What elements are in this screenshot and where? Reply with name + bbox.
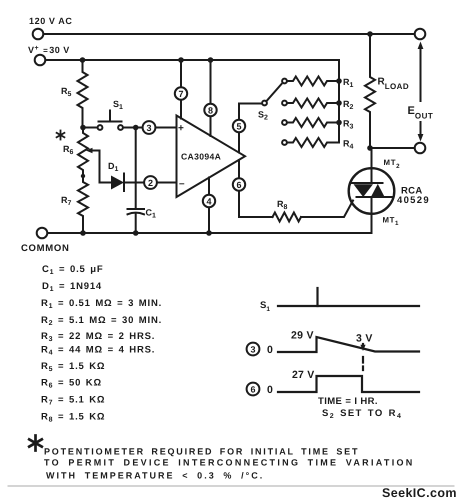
resistor R3 — [282, 118, 353, 131]
resistor R8 — [273, 199, 302, 222]
watermark rule — [8, 485, 454, 487]
pin 5 — [233, 104, 262, 153]
triac RCA 40529 — [349, 148, 395, 233]
pin 4 — [203, 178, 215, 234]
svg-text:S1: S1 — [113, 99, 123, 111]
svg-text:6: 6 — [236, 180, 241, 190]
svg-text:TIME = I HR.: TIME = I HR. — [318, 396, 378, 407]
pin 3 — [143, 121, 156, 134]
wire S1 to node 3 — [123, 127, 143, 129]
svg-text:+: + — [178, 123, 184, 134]
switch S2 — [258, 84, 282, 122]
svg-text:R8 = 1.5 KΩ: R8 = 1.5 KΩ — [41, 412, 105, 424]
svg-text:2: 2 — [148, 178, 153, 188]
svg-text:120 V AC: 120 V AC — [29, 16, 73, 26]
svg-text:RLOAD: RLOAD — [378, 77, 410, 92]
junction V+ / pin7 — [178, 57, 184, 63]
diode D1 — [108, 161, 124, 191]
resistor R7 — [61, 176, 88, 233]
wire to S1 — [83, 127, 98, 129]
pin 6 — [233, 160, 273, 217]
resistor R4 — [282, 138, 353, 151]
junction common/pin4 — [206, 230, 212, 236]
junction bus/R3 — [336, 120, 342, 126]
junction common/R7 — [80, 230, 86, 236]
svg-text:27 V: 27 V — [292, 369, 314, 381]
terminal COMMON — [37, 228, 48, 239]
wire wiper to D1 — [100, 151, 112, 183]
svg-text:MT1: MT1 — [383, 216, 400, 228]
svg-text:3: 3 — [146, 123, 151, 133]
potentiometer R6 — [63, 128, 88, 177]
svg-text:V+=30 V: V+=30 V — [28, 45, 70, 55]
svg-text:R6: R6 — [63, 144, 74, 156]
svg-text:R4 = 44 MΩ = 4 HRS.: R4 = 44 MΩ = 4 HRS. — [41, 345, 155, 357]
svg-text:S2: S2 — [258, 110, 268, 122]
svg-text:–: – — [179, 179, 185, 190]
svg-text:POTENTIOMETER REQUIRED FOR INI: POTENTIOMETER REQUIRED FOR INITIAL TIME … — [44, 447, 359, 457]
svg-text:SeekIC.com: SeekIC.com — [382, 486, 457, 500]
svg-text:R5: R5 — [61, 86, 72, 98]
label E OUT with arrows — [408, 42, 434, 142]
svg-text:4: 4 — [206, 197, 211, 207]
junction V+ / pin8 — [208, 57, 214, 63]
svg-text:5: 5 — [236, 122, 241, 132]
terminal EOUT bottom — [415, 143, 426, 154]
junction bus/R1 — [336, 78, 342, 84]
junction common/C1 — [133, 230, 139, 236]
asterisk footnote — [29, 436, 42, 451]
svg-text:7: 7 — [178, 89, 183, 99]
svg-text:S2 SET TO R4: S2 SET TO R4 — [322, 408, 402, 420]
node 6 waveform label — [247, 383, 273, 396]
capacitor C1 — [128, 128, 157, 234]
arrow 3V pointer — [360, 344, 365, 351]
svg-text:R2 = 5.1 MΩ = 30 MIN.: R2 = 5.1 MΩ = 30 MIN. — [41, 315, 162, 327]
terminal V+ — [35, 55, 46, 66]
pin 2 — [144, 176, 157, 189]
resistor R_LOAD — [365, 34, 409, 148]
svg-text:D1 = 1N914: D1 = 1N914 — [42, 281, 102, 293]
svg-text:R7: R7 — [61, 195, 72, 207]
waveform S1 baseline — [278, 305, 419, 307]
svg-text:R3: R3 — [343, 119, 354, 131]
resistor R2 — [282, 99, 353, 112]
junction V+ / R5 — [80, 57, 86, 63]
svg-text:0: 0 — [267, 344, 273, 356]
svg-text:R2: R2 — [343, 99, 354, 111]
svg-text:D1: D1 — [108, 161, 119, 173]
svg-text:C1: C1 — [146, 208, 157, 220]
svg-text:CA3094A: CA3094A — [181, 152, 221, 162]
svg-text:S1: S1 — [260, 300, 270, 313]
svg-text:6: 6 — [250, 385, 255, 395]
wire D1 to pin2 — [124, 182, 144, 184]
svg-text:3 V: 3 V — [356, 333, 373, 345]
wire pin3 to op-amp — [156, 127, 177, 129]
svg-text:R6 = 50 KΩ: R6 = 50 KΩ — [41, 378, 102, 390]
component values list — [41, 264, 162, 424]
svg-text:R1: R1 — [343, 77, 354, 89]
op-amp U1 CA3094A — [177, 116, 246, 198]
resistor R1 — [282, 77, 353, 90]
label RCA 40529 — [397, 186, 430, 207]
svg-text:R8: R8 — [277, 199, 288, 211]
pin 8 — [204, 60, 216, 136]
waveform pin6 — [278, 376, 419, 392]
svg-text:R5 = 1.5 KΩ: R5 = 1.5 KΩ — [41, 361, 105, 373]
waveform S1 spike — [316, 288, 318, 306]
resistor R5 — [61, 60, 88, 128]
footnote — [29, 436, 414, 481]
svg-text:3: 3 — [250, 345, 255, 355]
svg-text:R7 = 5.1 KΩ: R7 = 5.1 KΩ — [41, 395, 105, 407]
svg-text:R3 = 22 MΩ = 2 HRS.: R3 = 22 MΩ = 2 HRS. — [41, 331, 155, 343]
svg-text:8: 8 — [208, 106, 213, 116]
switch S1 — [98, 99, 123, 130]
junction top rail / R_LOAD — [367, 31, 373, 37]
junction bus/R2 — [336, 100, 342, 106]
junction R5/R6/S1 — [80, 125, 86, 131]
wire R8 to triac gate — [301, 201, 353, 218]
svg-text:R1 = 0.51 MΩ = 3 MIN.: R1 = 0.51 MΩ = 3 MIN. — [41, 298, 162, 310]
terminal 120 VAC — [33, 29, 44, 40]
dashed marker — [362, 357, 364, 370]
svg-text:40529: 40529 — [397, 195, 430, 206]
wire V+ rail — [46, 60, 340, 143]
svg-text:COMMON: COMMON — [21, 243, 70, 254]
wire common rail — [48, 214, 372, 233]
junction R_LOAD / triac / EOUT — [367, 145, 373, 151]
svg-text:R4: R4 — [343, 139, 354, 151]
svg-text:TO PERMIT DEVICE INTERCONNECTI: TO PERMIT DEVICE INTERCONNECTING TIME VA… — [44, 458, 415, 468]
svg-text:MT2: MT2 — [384, 158, 401, 170]
junction R6/R7 — [81, 174, 85, 178]
svg-text:EOUT: EOUT — [408, 105, 434, 121]
timing diagram — [247, 288, 419, 420]
svg-text:C1 = 0.5 μF: C1 = 0.5 μF — [42, 264, 103, 276]
pin 7 — [175, 60, 187, 119]
node 3 waveform label — [247, 343, 273, 356]
waveform pin3 — [278, 337, 419, 352]
svg-text:WITH TEMPERATURE < 0.3 % /°C.: WITH TEMPERATURE < 0.3 % /°C. — [46, 471, 264, 481]
R6 wiper arrow — [86, 148, 100, 153]
wire pin2 to op-amp — [157, 182, 177, 184]
svg-text:0: 0 — [267, 384, 273, 396]
wire to EOUT bottom terminal — [370, 147, 415, 149]
wire 120 VAC top rail — [44, 33, 415, 35]
asterisk by R6 — [57, 131, 65, 140]
terminal 120 VAC right — [415, 29, 426, 40]
junction S1 wire / C1 branch — [133, 125, 139, 131]
svg-text:29 V: 29 V — [291, 330, 314, 342]
